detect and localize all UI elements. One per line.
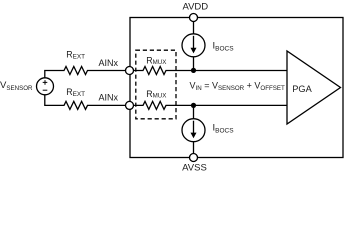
svg-text:AVDD: AVDD [182, 2, 208, 13]
svg-text:AINx: AINx [99, 58, 119, 68]
svg-text:AINx: AINx [99, 92, 119, 102]
svg-text:PGA: PGA [292, 84, 312, 94]
svg-text:AVSS: AVSS [182, 163, 207, 174]
